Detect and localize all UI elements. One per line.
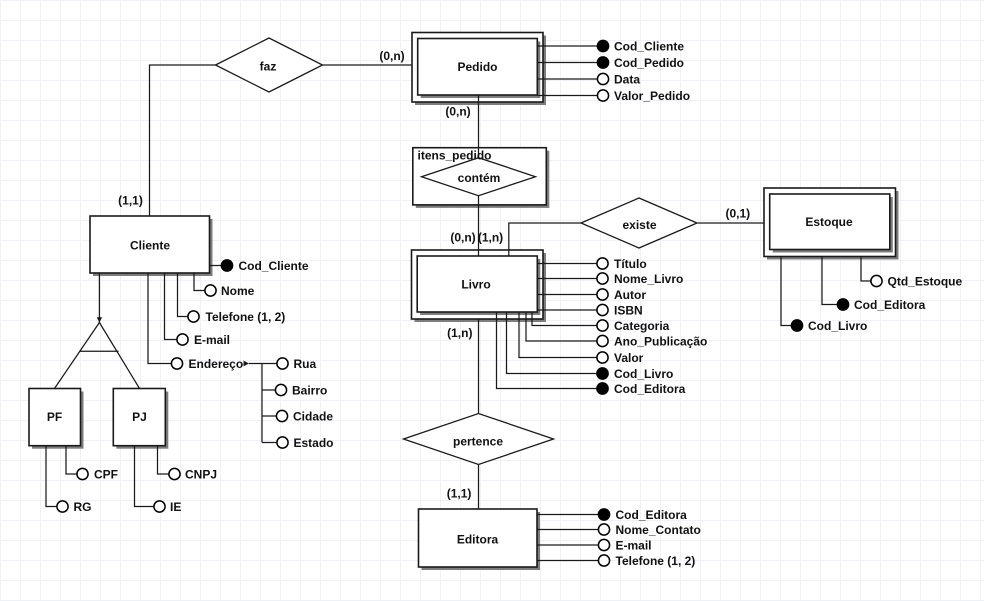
svg-text:(0,n): (0,n) [445, 105, 470, 119]
svg-text:Cod_Editora: Cod_Editora [616, 508, 688, 522]
svg-text:Cod_Cliente: Cod_Cliente [239, 259, 309, 273]
svg-text:Telefone (1, 2): Telefone (1, 2) [206, 310, 286, 324]
svg-text:RG: RG [74, 500, 92, 514]
svg-text:(0,1): (0,1) [725, 207, 750, 221]
svg-text:Cod_Livro: Cod_Livro [614, 367, 673, 381]
svg-text:(1,n): (1,n) [478, 231, 503, 245]
svg-text:Autor: Autor [614, 288, 646, 302]
svg-text:E-mail: E-mail [194, 333, 230, 347]
svg-text:PF: PF [47, 410, 62, 424]
svg-text:Cliente: Cliente [130, 239, 170, 253]
svg-text:Qtd_Estoque: Qtd_Estoque [888, 274, 963, 288]
svg-text:Endereço: Endereço [189, 357, 244, 371]
svg-text:Nome_Contato: Nome_Contato [616, 523, 701, 537]
svg-text:Cidade: Cidade [293, 409, 333, 423]
svg-text:Nome: Nome [221, 284, 255, 298]
svg-text:Categoria: Categoria [614, 319, 670, 333]
svg-text:Livro: Livro [461, 278, 490, 292]
svg-text:PJ: PJ [132, 410, 147, 424]
svg-text:Título: Título [614, 257, 647, 271]
svg-text:(0,n): (0,n) [379, 49, 404, 63]
svg-text:Cod_Livro: Cod_Livro [808, 319, 867, 333]
svg-text:Valor_Pedido: Valor_Pedido [614, 89, 690, 103]
svg-text:Valor: Valor [614, 351, 644, 365]
svg-text:Editora: Editora [457, 533, 499, 547]
svg-text:contém: contém [458, 171, 501, 185]
svg-text:Rua: Rua [294, 357, 317, 371]
svg-text:(1,1): (1,1) [118, 194, 143, 208]
svg-text:Cod_Editora: Cod_Editora [854, 298, 926, 312]
svg-text:faz: faz [260, 59, 277, 73]
svg-text:CNPJ: CNPJ [185, 467, 217, 481]
svg-text:IE: IE [170, 500, 181, 514]
svg-text:E-mail: E-mail [616, 538, 652, 552]
svg-text:existe: existe [622, 218, 656, 232]
svg-text:Estoque: Estoque [805, 215, 853, 229]
svg-text:Cod_Pedido: Cod_Pedido [614, 56, 684, 70]
svg-text:Ano_Publicação: Ano_Publicação [614, 334, 707, 348]
svg-text:Cod_Editora: Cod_Editora [614, 382, 686, 396]
svg-text:Cod_Cliente: Cod_Cliente [614, 39, 684, 53]
svg-text:Pedido: Pedido [457, 60, 497, 74]
svg-text:pertence: pertence [453, 435, 503, 449]
svg-text:ISBN: ISBN [614, 303, 643, 317]
svg-text:Bairro: Bairro [292, 383, 327, 397]
svg-text:(1,1): (1,1) [447, 486, 472, 500]
svg-text:CPF: CPF [94, 467, 118, 481]
svg-text:(0,n): (0,n) [450, 231, 475, 245]
svg-text:Nome_Livro: Nome_Livro [614, 272, 683, 286]
svg-text:Estado: Estado [294, 436, 334, 450]
svg-text:(1,n): (1,n) [447, 326, 472, 340]
svg-text:Data: Data [614, 72, 640, 86]
svg-text:itens_pedido: itens_pedido [418, 148, 492, 162]
svg-text:Telefone (1, 2): Telefone (1, 2) [616, 554, 696, 568]
